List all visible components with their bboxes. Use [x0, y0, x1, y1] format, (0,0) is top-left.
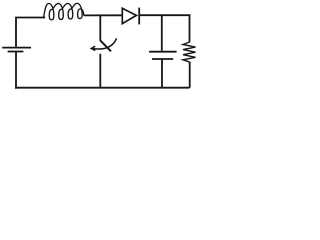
wire capacitor top lead — [161, 15, 163, 51]
diode D1 cathode bar — [138, 8, 140, 25]
switch S1 arrowhead — [91, 46, 95, 50]
wire battery bottom lead — [15, 52, 17, 89]
wire top-left: battery top to inductor — [16, 18, 45, 47]
wire top-mid: inductor to diode anode — [84, 14, 122, 16]
capacitor C1 bottom plate — [152, 58, 173, 60]
diode D1 — [122, 8, 136, 23]
bottom rail wire — [15, 87, 190, 89]
switch S1 lever — [100, 40, 111, 51]
inductor L1 — [44, 3, 85, 19]
wire top-right: diode to output corner — [139, 14, 190, 16]
switch S1 bottom lead wire — [99, 54, 101, 88]
switch S1 motion arc — [92, 38, 117, 49]
battery BT1 short plate — [8, 51, 24, 53]
switch S1 top lead wire — [99, 15, 101, 40]
wire resistor bottom lead — [189, 62, 191, 88]
capacitor C1 top plate — [149, 51, 177, 53]
resistor R1 zigzag — [183, 42, 196, 62]
wire capacitor bottom lead — [161, 59, 163, 88]
battery BT1 long plate — [2, 47, 31, 49]
wire resistor top lead — [189, 15, 191, 42]
